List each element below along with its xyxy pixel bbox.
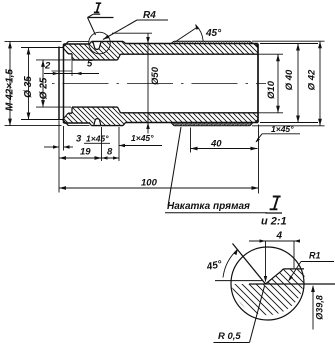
step d35-d25 bottom	[71, 107, 73, 113]
label 1x45 left underline	[84, 142, 110, 144]
dim d25 line	[42, 60, 44, 107]
runout closure bottom	[123, 123, 126, 126]
thread root top	[64, 43, 91, 45]
step ext for dim5	[71, 60, 73, 76]
dim d50 jog	[112, 32, 152, 34]
svg-text:R4: R4	[143, 10, 156, 21]
label I top	[94, 3, 101, 12]
svg-text:Ø10: Ø10	[266, 80, 277, 99]
detail angle base line	[215, 280, 263, 282]
dim d10 ext top	[258, 53, 283, 55]
detail R05 leader	[250, 286, 265, 343]
detail dim d39.8 line	[312, 286, 314, 330]
outer surface bottom	[126, 122, 259, 124]
label 1x45 right leader	[256, 134, 262, 142]
bore chamfer top	[64, 48, 69, 54]
detail dim4 ext left	[265, 241, 267, 277]
dim 1x45 mid line	[119, 145, 162, 147]
dim d35 line	[28, 48, 30, 120]
runout flat top	[92, 40, 124, 42]
thread chamfer top	[62, 41, 69, 48]
45deg annotation diagonal	[175, 27, 198, 42]
dim d25 ext bottom	[36, 106, 71, 108]
svg-text:R1: R1	[309, 251, 321, 261]
label R4 leader	[137, 19, 168, 21]
label I top leader	[88, 18, 96, 36]
outer surface top	[126, 43, 259, 45]
detail dim4 line	[249, 240, 300, 242]
knurl band top	[174, 40, 250, 42]
ext right face bottom	[258, 125, 260, 194]
svg-text:2: 2	[44, 61, 51, 72]
dim 5 line	[44, 73, 99, 75]
dim d35 ext top	[21, 47, 63, 49]
svg-text:8: 8	[107, 147, 113, 158]
svg-text:5: 5	[87, 59, 93, 70]
groove R4 bottom	[94, 119, 101, 126]
svg-text:Ø 35: Ø 35	[23, 76, 34, 98]
svg-text:Накатка прямая: Накатка прямая	[167, 201, 250, 212]
ext groove right bottom	[101, 127, 103, 161]
detail R1 underline	[301, 261, 334, 263]
dim 2 line	[52, 70, 73, 72]
svg-text:19: 19	[80, 147, 91, 158]
runout flat bottom	[92, 125, 124, 127]
dim M42x1,5 ext top	[5, 40, 62, 42]
45deg annotation arc	[196, 25, 204, 41]
dim d25 ext top	[36, 59, 71, 61]
bore d25 top	[72, 59, 118, 61]
svg-text:Ø 25: Ø 25	[39, 77, 50, 99]
ext left face bottom	[58, 121, 60, 193]
svg-text:100: 100	[141, 178, 158, 189]
svg-text:4: 4	[276, 231, 283, 242]
dim M42x1,5 line	[9, 41, 11, 125]
detail groove left flank	[233, 244, 266, 285]
svg-text:40: 40	[210, 139, 222, 150]
detail hatching ridge	[266, 269, 305, 284]
svg-text:1×45°: 1×45°	[271, 124, 294, 134]
svg-text:Ø50: Ø50	[150, 66, 161, 85]
svg-text:R 0,5: R 0,5	[218, 331, 241, 342]
dim 40 line	[191, 148, 258, 150]
knurl leader	[168, 127, 181, 206]
main bore bottom	[121, 112, 259, 114]
svg-text:и 2:1: и 2:1	[261, 216, 287, 228]
dim d40 ext top	[260, 43, 318, 45]
runout step top	[90, 41, 92, 44]
dim d40 ext bottom	[260, 122, 318, 124]
dim d42 ext top	[252, 40, 325, 42]
knurl ramp bottom right	[250, 123, 253, 126]
thread crest thin top	[68, 40, 90, 42]
detail dim4 ext right	[293, 241, 295, 268]
ext knurl40 left	[190, 128, 192, 153]
label I detail underline	[266, 212, 283, 214]
svg-text:Ø 40: Ø 40	[284, 69, 295, 90]
knurl ramp top left	[171, 41, 174, 43]
detail R1 leader	[289, 262, 301, 281]
runout closure top	[123, 41, 126, 43]
detail boundary circle	[231, 247, 304, 320]
dim M42x1,5 ext bottom	[5, 125, 62, 127]
svg-text:1×45°: 1×45°	[131, 133, 154, 143]
section hatching bottom band	[64, 107, 259, 126]
thread chamfer bottom	[62, 119, 69, 126]
detail circle I	[89, 32, 111, 54]
svg-text:Ø39,8: Ø39,8	[315, 295, 325, 320]
centerline	[52, 83, 266, 85]
ext step8 bottom	[118, 127, 120, 161]
dim d42 ext bottom	[252, 125, 325, 127]
dim 100 line	[59, 187, 259, 189]
left face outer	[58, 47, 60, 121]
right face	[257, 44, 259, 123]
knurl ramp bottom left	[171, 123, 174, 126]
label I top bar	[88, 17, 114, 19]
dim d42 line	[319, 41, 321, 126]
knurl band bottom	[174, 125, 250, 127]
bore chamfer bottom	[64, 113, 69, 119]
bore d25 bottom	[72, 106, 118, 108]
detail R05 underline	[214, 342, 250, 344]
runout step bottom	[90, 123, 92, 126]
thread crest thin bottom	[68, 125, 90, 127]
label 1x45 right underline	[262, 133, 300, 135]
svg-text:Ø 42: Ø 42	[307, 69, 318, 90]
detail surface line	[249, 283, 335, 285]
label I top underline	[93, 13, 100, 15]
bore d35 bottom	[68, 112, 72, 114]
dim d35 ext bottom	[21, 119, 63, 121]
svg-text:3: 3	[76, 134, 82, 145]
svg-text:45°: 45°	[205, 28, 222, 39]
right face chamfer bottom	[255, 120, 258, 123]
dim d10 ext bottom	[258, 112, 283, 114]
thread root bottom	[64, 122, 91, 124]
dim d40 line	[297, 44, 299, 123]
svg-text:М 42×1,5: М 42×1,5	[5, 69, 16, 111]
label I detail	[270, 197, 281, 210]
step chamfer d25-main bottom	[118, 107, 121, 113]
label knurl underline	[165, 212, 267, 214]
dim 8 line	[102, 157, 120, 159]
right face chamfer top	[255, 44, 258, 47]
dim 3 line	[44, 146, 59, 148]
section hatching top band	[64, 41, 259, 60]
detail ridge flank	[266, 269, 305, 284]
groove R4 top	[93, 41, 101, 49]
svg-text:1×45°: 1×45°	[86, 134, 109, 144]
bore d35 top	[68, 53, 72, 55]
dim 19 line	[59, 157, 102, 159]
step chamfer d25-main top	[118, 54, 121, 60]
detail hatching lower	[231, 284, 303, 315]
step d35-d25 top	[71, 54, 73, 60]
dim d50 line	[147, 33, 149, 133]
ext recess bottom	[63, 126, 65, 151]
dim d10 line	[277, 54, 279, 113]
left face recess	[63, 44, 65, 123]
knurl ramp top right	[250, 41, 253, 43]
main bore top	[121, 53, 259, 55]
detail 45 arc	[223, 250, 238, 278]
